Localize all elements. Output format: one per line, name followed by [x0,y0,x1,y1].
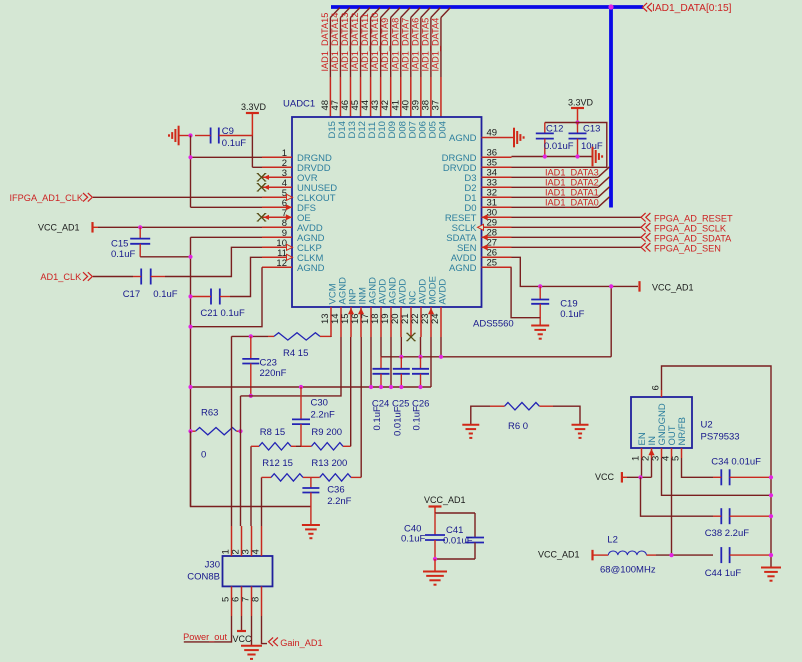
svg-text:IAD1_DATA8: IAD1_DATA8 [390,18,400,72]
node C9 junction [188,133,192,137]
svg-text:Gain_AD1: Gain_AD1 [280,638,322,648]
node R63 left junction [188,429,192,433]
wire FPGA_AD_RESET [512,216,642,218]
svg-text:C38 2.2uF: C38 2.2uF [705,528,750,539]
svg-text:FPGA_AD_SCLK: FPGA_AD_SCLK [654,223,727,233]
ground J30 pin7 [241,645,262,647]
svg-text:0.1uF: 0.1uF [412,406,423,430]
no-connect X pin 3 OVR [258,174,266,182]
pin 28 SDATA (right) [482,236,512,238]
pin 1 DRGND (left) [262,156,292,158]
pin 14 AGND (bottom) [340,307,342,337]
svg-text:IAD1_DATA4: IAD1_DATA4 [430,18,440,72]
wire DRGND pin1 branch [191,156,263,158]
svg-text:0.1uF: 0.1uF [560,309,584,320]
wire J30 pin1 corner to R4 and C23 [232,335,269,337]
svg-text:IAD1_DATA0: IAD1_DATA0 [545,198,599,208]
pin 34 D3 (right) [482,176,512,178]
node C15 top junction [138,225,142,229]
capacitor C34 [713,469,771,485]
svg-text:IAD1_DATA11: IAD1_DATA11 [360,13,370,71]
pin 13 VCM (bottom) [330,307,332,337]
svg-text:C21 0.1uF: C21 0.1uF [200,308,245,319]
pin 43 D10 (top) [380,77,382,117]
capacitor C9 [195,128,252,144]
wire IAD1_DATA4 bus entry [441,8,451,18]
resistor R4 [268,333,331,340]
pin 42 D09 (top) [390,77,392,117]
svg-text:FPGA_AD_RESET: FPGA_AD_RESET [654,213,733,223]
node bus corner junction [608,4,613,9]
pin 23 MODE (bottom) [430,307,432,337]
pin 38 D05 (top) [430,77,432,117]
svg-text:0.1uF: 0.1uF [401,534,425,545]
node C12 bottom junction [543,154,547,158]
capacitor C19 [531,286,549,325]
svg-text:25: 25 [487,257,498,268]
ground AGND right of C13 [592,147,594,167]
ground below C40/C41 [423,559,447,585]
svg-text:VCC: VCC [595,472,615,482]
no-connect X pin 4 UNUSED [258,184,266,192]
capacitor C15 [130,227,150,256]
svg-text:VCC_AD1: VCC_AD1 [652,283,694,293]
pin 2 IN (U2 bottom) [651,448,653,458]
svg-text:IAD1_DATA3: IAD1_DATA3 [545,168,599,178]
node C13 bottom junction [575,154,579,158]
svg-text:IAD1_DATA9: IAD1_DATA9 [380,18,390,72]
output marker pin 29 SCLK [478,224,484,230]
power port 3.3VD (left) [241,102,267,136]
node C23 bottom junction [249,394,253,398]
pin 5 CLKOUT (left) [262,196,292,198]
svg-text:R63: R63 [201,408,218,419]
svg-text:R6 0: R6 0 [508,421,528,432]
wire U2 pin6 to ground rail [662,366,772,568]
pin 20 AVDD (bottom) [400,307,402,337]
pin 3 OVR (left) [262,176,292,178]
output marker pin 5 CLKOUT [287,194,293,200]
svg-text:0: 0 [201,450,206,461]
pin 4 OUT (U2 bottom) [671,448,673,458]
regulator U2 PS79533 body [631,397,692,448]
power port VCC_AD1 (right) [640,281,694,292]
pin 29 SCLK (right) [482,226,512,228]
node pin22 junction [418,355,422,359]
net label AD1_CLK [40,272,92,282]
svg-text:L2: L2 [607,535,618,546]
wire IAD1_DATA3 to bus [512,176,599,178]
capacitor C26 [412,357,429,387]
power port VCC_AD1 (L2) [538,550,598,561]
net label IAD1_DATA[0:15] [643,3,732,14]
pin 6 (J30 bottom) [241,586,243,616]
svg-text:IAD1_DATA10: IAD1_DATA10 [370,13,380,72]
wire VCC node to C38 [641,477,714,516]
input arrow pin 15 INP [348,308,354,314]
pin 31 D0 (right) [482,206,512,208]
wire C40/C41 bottom [435,558,475,560]
wire R63 right column up to AGND line corner [240,396,242,431]
node VCC junction [638,475,642,479]
net label FPGA_AD_SDATA [641,233,732,243]
svg-text:C23: C23 [260,358,277,369]
wire VCC to U2 pins 1,2 [627,476,652,478]
node AGND12 junction [188,325,192,329]
node C15 bottom junction [188,255,192,259]
svg-text:IAD1_DATA[0:15]: IAD1_DATA[0:15] [652,3,732,14]
pin 10 CLKP (left) [262,246,292,248]
pin 6 DFS (left) [262,206,292,208]
wire pin20 AVDD to AVDD rail [400,337,402,357]
svg-text:0.1uF: 0.1uF [372,406,383,430]
wire AGND pin9 branch [191,236,263,238]
capacitor C38 [713,508,771,524]
wire IAD1_DATA0 to bus [512,206,599,208]
ground right of R6 [572,424,589,426]
pin 40 D07 (top) [410,77,412,117]
svg-text:R4 15: R4 15 [283,348,308,359]
svg-text:37: 37 [430,100,441,111]
pin 5 (J30 bottom) [231,586,233,616]
net label FPGA_AD_SCLK [641,223,727,233]
node C30 top junction [299,385,303,389]
arrowhead pin 3 OVR [264,175,270,180]
wire R6 right to ground [553,406,580,425]
input arrow pin 27 SEN [482,244,488,250]
svg-text:ADS5560: ADS5560 [473,319,514,330]
svg-text:FPGA_AD_SEN: FPGA_AD_SEN [654,243,721,253]
svg-text:IAD1_DATA12: IAD1_DATA12 [350,13,360,72]
node pin24 junction [439,355,443,359]
svg-text:C15: C15 [111,239,128,250]
wire pin22 AVDD to AVDD rail [420,337,422,357]
svg-text:C12: C12 [546,124,563,135]
capacitor C36 [302,477,319,525]
pin 11 CLKM (left) [262,256,292,258]
svg-text:R9 200: R9 200 [311,427,342,438]
svg-text:IAD1_DATA6: IAD1_DATA6 [410,18,420,72]
pin 45 D12 (top) [360,77,362,117]
node rail-387 left junction [188,385,192,389]
pin 9 AGND (left) [262,236,292,238]
svg-text:0.1uF: 0.1uF [153,289,177,300]
wire FPGA_AD_SEN [512,246,642,248]
pin 7 OE (left) [262,216,292,218]
svg-text:VCC_AD1: VCC_AD1 [538,550,580,560]
wire J30 pin2 column [240,431,242,526]
node C19 top junction [538,284,542,288]
wire IAD1_DATA2 to bus [512,186,599,188]
arrowhead pin 4 UNUSED [264,185,270,190]
ground AGND pin 49 [512,128,524,148]
power port VCC (U2) [595,472,627,483]
wire IAD1_DATA9 bus entry [391,8,401,18]
resistor R8 [251,443,296,450]
svg-text:AGND: AGND [449,133,477,144]
wire IAD1_DATA13 bus entry [351,8,361,18]
net label FPGA_AD_RESET [641,213,733,223]
svg-text:IAD1_DATA2: IAD1_DATA2 [545,178,599,188]
wire C17 to pin 10 CLKP [165,247,262,276]
svg-text:C30: C30 [311,398,328,409]
power port VCC (J30 pin6) [233,616,253,644]
capacitor C24 [373,357,390,387]
pin 26 AVDD (right) [482,256,512,258]
svg-text:C41: C41 [446,525,463,536]
capacitor C23 [242,336,259,396]
pin 44 D11 (top) [370,77,372,117]
svg-text:2.2nF: 2.2nF [311,410,335,421]
net label FPGA_AD_SEN [641,243,721,253]
capacitor C41 [466,513,484,559]
wire R8 left to J30 pin3 column [296,445,301,447]
pin 19 AGND (bottom) [390,307,392,337]
node C26 bottom junction [418,385,422,389]
wire U2 pin3 GND to ground rail [662,458,772,495]
wire AD1_CLK to C17 [93,276,133,278]
node C34 right junction [769,475,773,479]
capacitor C17 [133,269,165,285]
svg-text:0.1uF: 0.1uF [222,138,246,149]
resistor R9 [301,443,351,450]
pin 3 (J30 top) [251,526,253,556]
pin 8 AVDD (left) [262,226,292,228]
wire pin17 AGND to rail [370,337,372,387]
input arrow pin 16 INM [358,308,364,314]
node pin20 junction [399,355,403,359]
pin 4 UNUSED (left) [262,186,292,188]
resistor R6 [490,403,553,410]
bus IAD1_DATA[0:15] vertical [609,7,613,208]
pin 49 AGND (right) [482,137,512,139]
ground AGND left of C9 [169,126,191,146]
wire J30 pin8 to Gain_AD1 [262,616,268,644]
pin 48 D15 (top) [329,77,331,117]
wire AGND9 corner down left rail [190,237,192,506]
clock marker pin 10 CLKP [287,244,293,250]
pin 4 (J30 top) [261,526,263,556]
node pin17 junction [369,385,373,389]
svg-text:3.3VD: 3.3VD [568,98,594,108]
svg-text:C17: C17 [123,289,140,300]
node R63 right junction [238,429,242,433]
svg-text:24: 24 [430,313,441,324]
wire R13 right to pin 16 INM [360,337,362,477]
node 3.3VD rail junction [575,120,579,124]
pin 21 NC (bottom) [410,307,412,337]
bus IAD1_DATA[0:15] horizontal [331,5,643,9]
wire IAD1_DATA8 bus entry [401,8,411,18]
net label IFPGA_AD1_CLK [10,193,93,203]
svg-text:C44 1uF: C44 1uF [705,568,742,579]
svg-text:IAD1_DATA13: IAD1_DATA13 [340,13,350,72]
wire IAD1_DATA7 bus entry [411,8,421,18]
svg-text:IFPGA_AD1_CLK: IFPGA_AD1_CLK [10,193,84,203]
svg-text:AGND: AGND [297,263,325,274]
pin 37 D04 (top) [440,77,442,117]
capacitor C25 [393,357,410,387]
pin 16 INM (bottom) [360,307,362,337]
wire J30 pin3 column from R8 left corner [250,446,252,526]
wire AGND line to pin 14 [241,337,342,396]
wire DRGND pin36 to decoupling ground [512,156,593,158]
svg-text:0.01uF: 0.01uF [544,141,574,152]
pin 39 D06 (top) [420,77,422,117]
pin 30 RESET (right) [482,216,512,218]
node DRGND branch [188,155,192,159]
input arrow pin 7 OE at box [286,214,292,220]
svg-text:C9: C9 [222,126,234,137]
svg-text:R8 15: R8 15 [260,427,285,438]
svg-text:IAD1_DATA7: IAD1_DATA7 [400,18,410,72]
power port 3.3VD (right) [568,98,594,123]
wire J30 pin7 to ground [251,616,253,646]
ground below right rail [761,567,781,569]
svg-text:R12 15: R12 15 [262,458,293,469]
wire J30 pin4 column from R12 left corner [261,477,263,526]
arrowhead pin 7 OE [264,215,270,220]
resistor R13 [307,474,361,481]
pin 35 DRVDD (right) [482,166,512,168]
pin 33 D2 (right) [482,186,512,188]
svg-text:AVDD: AVDD [438,279,449,305]
svg-text:C34 0.01uF: C34 0.01uF [711,457,761,468]
wire J30 pin5 to Power_out [184,616,232,642]
no-connect X pin 21 NC [407,333,415,341]
pin 2 DRVDD (left) [262,166,292,168]
capacitor C13 [569,123,587,157]
input arrow pin 2 IN [648,449,654,455]
wire IAD1_DATA15 bus entry [330,8,340,18]
wire 3.3VD to pin 2 DRVDD [251,136,253,168]
svg-text:2.2nF: 2.2nF [327,496,351,507]
node C25 bottom junction [399,385,403,389]
wire pin24 AVDD to AVDD rail [440,337,442,357]
input arrow pin 6 DFS [286,204,292,210]
wire C21 to pin 11 CLKM [230,257,262,296]
svg-text:VCC: VCC [233,634,253,644]
pin 6 GND (top) [661,390,663,397]
node pin19 junction [389,385,393,389]
svg-text:220nF: 220nF [260,368,287,379]
pin 46 D13 (top) [350,77,352,117]
svg-text:49: 49 [487,128,498,139]
wire R4 to pin 13 VCM [330,335,332,338]
svg-text:0.01uF: 0.01uF [443,536,473,547]
svg-text:0.1uF: 0.1uF [111,249,135,260]
capacitor C40 [425,513,445,559]
node C38 right junction [769,514,773,518]
svg-text:UADC1: UADC1 [283,99,315,110]
svg-text:IAD1_DATA5: IAD1_DATA5 [420,18,430,72]
wire pin 12 AGND loop to rail [191,267,263,326]
wire FPGA_AD_SDATA [512,236,642,238]
wire pin 26 AVDD to VCC_AD1 rail [512,257,639,286]
svg-text:AGND: AGND [449,263,477,274]
svg-text:C13: C13 [583,124,600,135]
svg-text:CON8B: CON8B [187,572,220,583]
capacitor C30 [292,387,310,446]
svg-text:IAD1_DATA14: IAD1_DATA14 [330,13,340,72]
wire AVDD rail riser to VCC rail [610,286,612,356]
wire VCC_AD1 to pin 8 AVDD [98,226,262,228]
clock marker pin 11 CLKM [287,254,293,260]
wire IAD1_DATA10 bus entry [381,8,391,18]
net label Gain_AD1 [269,638,323,649]
pin 47 D14 (top) [339,77,341,117]
pin 41 D08 (top) [400,77,402,117]
ground below C19 [531,325,549,327]
resistor R12 [262,474,308,481]
op-amp U1 ADC UADC1 ADS5560 body [292,117,482,307]
pin 1 EN (U2 bottom) [641,448,643,458]
svg-text:D04: D04 [437,121,448,138]
pin 7 (J30 bottom) [251,586,253,616]
pin 24 AVDD (bottom) [440,307,442,337]
svg-text:68@100MHz: 68@100MHz [600,565,656,576]
node C21 left junction [188,294,192,298]
wire C15 bottom to rail [140,256,190,258]
wire AVDD rail y=356.8 [381,356,611,358]
resistor R63 [191,428,241,435]
wire C9 node down to DFS corner [190,136,192,208]
svg-text:IAD1_DATA1: IAD1_DATA1 [545,188,599,198]
svg-text:C19: C19 [560,299,577,310]
wire rail down to C36 ground stem [191,431,311,506]
wire R6 left to ground [471,406,490,425]
svg-text:0.01uF: 0.01uF [392,406,403,436]
power port VCC_AD1 (left) [38,222,98,233]
pin 36 DRGND (right) [482,156,512,158]
svg-text:NR/FB: NR/FB [677,417,688,446]
wire DRVDD supply rail top [512,123,607,168]
wire U2 pin5 NR/FB to C34 [682,458,714,477]
svg-text:U2: U2 [701,420,713,431]
svg-text:R13 200: R13 200 [311,458,347,469]
svg-text:8: 8 [251,597,262,602]
svg-text:VCC_AD1: VCC_AD1 [38,223,80,233]
capacitor C44 [721,547,771,563]
wire pin18 AVDD to AVDD rail [380,337,382,357]
wire IAD1_DATA12 bus entry [361,8,371,18]
wire IAD1_DATA11 bus entry [371,8,381,18]
pin 22 AVDD (bottom) [420,307,422,337]
svg-text:PS79533: PS79533 [701,432,740,443]
pin 5 NR/FB (U2 bottom) [681,448,683,458]
wire R9 right to pin 15 INP [350,337,352,446]
wire IFPGA_AD1_CLK to pin 5 CLKOUT [93,196,262,198]
node C24 bottom junction [379,385,383,389]
svg-text:6: 6 [651,385,662,390]
capacitor C12 [536,123,554,157]
svg-text:Power_out: Power_out [183,632,227,642]
wire pin19 AGND to rail [390,337,392,387]
input arrow pin 28 SDATA [482,234,488,240]
node C40 ground junction [433,557,437,561]
wire U2 pin4 OUT to L2 node [671,458,673,555]
svg-text:C36: C36 [327,485,344,496]
pin 27 SEN (right) [482,246,512,248]
power port VCC_AD1 (center) [424,495,466,513]
pin 18 AVDD (bottom) [380,307,382,337]
ground left of R6 [462,424,479,426]
no-connect X pin 7 OE [258,214,266,222]
node riser junction [609,284,613,288]
inductor L2 [598,551,713,555]
svg-text:4: 4 [251,549,262,554]
svg-text:J30: J30 [205,560,220,571]
